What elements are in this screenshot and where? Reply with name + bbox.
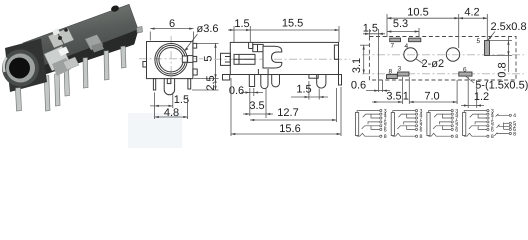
svg-text:2-ø2: 2-ø2 — [422, 58, 445, 70]
svg-text:12.7: 12.7 — [277, 107, 298, 119]
svg-text:4.8: 4.8 — [164, 107, 179, 119]
svg-text:6: 6 — [463, 66, 467, 73]
svg-text:2.5x0.8: 2.5x0.8 — [491, 21, 527, 33]
svg-text:10.5: 10.5 — [407, 7, 428, 19]
svg-text:6: 6 — [420, 127, 423, 133]
svg-text:8: 8 — [420, 134, 423, 140]
svg-text:5: 5 — [203, 55, 215, 61]
svg-text:1.2: 1.2 — [474, 91, 489, 103]
svg-text:ø3.6: ø3.6 — [197, 23, 219, 35]
svg-text:5: 5 — [477, 38, 481, 45]
svg-text:8: 8 — [384, 134, 387, 140]
svg-text:8: 8 — [513, 131, 516, 137]
svg-text:3.1: 3.1 — [351, 58, 363, 73]
svg-text:8: 8 — [491, 134, 494, 140]
svg-text:4.2: 4.2 — [464, 7, 479, 19]
svg-text:15.5: 15.5 — [282, 18, 303, 30]
svg-text:6: 6 — [455, 127, 458, 133]
svg-text:6: 6 — [169, 18, 175, 30]
svg-text:1.5: 1.5 — [296, 84, 311, 96]
svg-text:1: 1 — [403, 91, 409, 103]
svg-text:5-(1.5x0.5): 5-(1.5x0.5) — [475, 80, 528, 92]
svg-text:4: 4 — [513, 113, 516, 119]
svg-text:1.5: 1.5 — [234, 18, 249, 30]
svg-text:7.0: 7.0 — [424, 91, 439, 103]
svg-text:7: 7 — [391, 43, 395, 50]
svg-text:4: 4 — [405, 43, 409, 50]
svg-text:0.6: 0.6 — [351, 80, 366, 92]
svg-text:1.5: 1.5 — [174, 94, 189, 106]
svg-text:3.5: 3.5 — [249, 100, 264, 112]
svg-text:3: 3 — [398, 66, 402, 73]
svg-text:8: 8 — [455, 134, 458, 140]
svg-text:6: 6 — [384, 127, 387, 133]
svg-text:6: 6 — [491, 127, 494, 133]
svg-text:5.3: 5.3 — [393, 18, 408, 30]
svg-text:3.5: 3.5 — [386, 91, 401, 103]
svg-text:15.6: 15.6 — [279, 123, 300, 135]
svg-text:8: 8 — [389, 69, 393, 76]
svg-text:0.8: 0.8 — [497, 62, 509, 77]
svg-text:1.5: 1.5 — [363, 23, 378, 35]
svg-text:2.5: 2.5 — [205, 75, 217, 90]
